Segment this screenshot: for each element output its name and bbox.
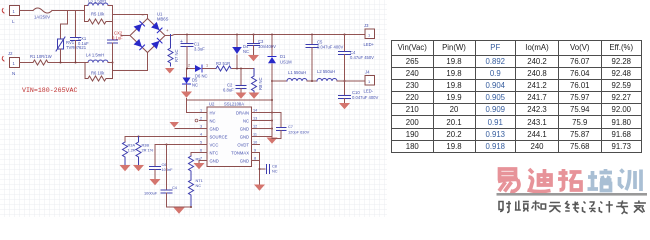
- J2 pigtail: [2, 57, 4, 62]
- inductor L4: [88, 60, 108, 63]
- svg-text:0.047uF 400V: 0.047uF 400V: [317, 45, 344, 50]
- watermark divider bar: [497, 193, 648, 196]
- svg-text:5: 5: [200, 141, 202, 145]
- wire L rail: [20, 10, 34, 12]
- svg-text:1: 1: [200, 109, 202, 113]
- bridge left stub: [121, 35, 130, 37]
- svg-text:L: L: [12, 19, 15, 24]
- svg-text:NC: NC: [272, 169, 278, 174]
- svg-text:12: 12: [253, 125, 257, 129]
- svg-text:D6 NC: D6 NC: [195, 74, 208, 79]
- svg-text:SOURCE: SOURCE: [210, 135, 228, 140]
- svg-text:J3: J3: [364, 23, 369, 28]
- capacitor C4b 1000uF: [166, 145, 168, 191]
- ground pin7: [198, 161, 201, 163]
- svg-text:2R 1%: 2R 1%: [142, 148, 154, 153]
- svg-text:2: 2: [200, 117, 202, 121]
- capacitor C8: [267, 165, 270, 174]
- bridge diodes: [134, 21, 163, 50]
- diode D4: [236, 35, 238, 48]
- ground C3: [248, 55, 259, 61]
- fuse F1: [33, 8, 52, 13]
- ground C6: [150, 179, 161, 185]
- resistor R2: [216, 66, 231, 71]
- capacitor CX1: [71, 38, 81, 41]
- U2 pin names: [210, 111, 250, 164]
- capacitor C10: [339, 96, 351, 99]
- svg-text:+: +: [166, 28, 169, 33]
- wire pin4 SOURCE: [125, 137, 200, 143]
- wire RV1 jog: [61, 11, 68, 39]
- wire pin9 TONMAX: [260, 153, 266, 170]
- svg-text:NTC: NTC: [210, 151, 219, 156]
- svg-text:VIN=180-265VAC: VIN=180-265VAC: [22, 87, 77, 94]
- svg-text:GND: GND: [210, 127, 219, 132]
- U2 pin numbers: [200, 109, 257, 161]
- svg-text:LED-: LED-: [364, 89, 374, 94]
- ground R7: [165, 68, 175, 74]
- svg-text:10n/400V: 10n/400V: [258, 44, 276, 49]
- svg-text:3: 3: [200, 125, 202, 129]
- capacitor C5: [311, 35, 313, 45]
- svg-text:10: 10: [253, 141, 257, 145]
- svg-text:NC: NC: [243, 119, 249, 124]
- J1 pigtail: [2, 9, 4, 14]
- svg-text:SSL2108A: SSL2108A: [224, 102, 244, 107]
- ground VCC bus: [174, 208, 185, 214]
- svg-text:0.1uF: 0.1uF: [78, 41, 89, 46]
- choke split left: [84, 6, 86, 22]
- results table: [391, 40, 642, 153]
- svg-text:NC: NC: [210, 119, 216, 124]
- svg-text:MB6S: MB6S: [157, 17, 169, 22]
- choke join right / X-cap drop: [112, 6, 114, 41]
- svg-text:LED+: LED+: [364, 42, 375, 47]
- svg-text:9: 9: [254, 149, 256, 153]
- watermark logo yi di tuo pei xun: [498, 169, 582, 192]
- capacitor C4: [344, 35, 346, 52]
- resistor R3A: [123, 142, 128, 165]
- svg-text:13: 13: [253, 117, 257, 121]
- DC+ rail: [165, 35, 365, 36]
- svg-text:US1M: US1M: [280, 60, 292, 65]
- ground pins 11-13: [267, 138, 278, 144]
- svg-text:0.047uF 400V: 0.047uF 400V: [352, 95, 379, 100]
- resistor R8: [252, 69, 257, 93]
- svg-text:R8 NC: R8 NC: [258, 77, 263, 90]
- wires pins 13 12 11 to gnd bus: [260, 121, 273, 137]
- svg-text:L3 1.5mH: L3 1.5mH: [88, 0, 106, 4]
- wire pin6 NTC: [191, 153, 200, 157]
- svg-text:TONMAX: TONMAX: [231, 151, 249, 156]
- wire pin14 DRAIN: [260, 112, 282, 114]
- U2 pin stubs left: [200, 113, 260, 161]
- svg-text:1A/250V: 1A/250V: [34, 15, 50, 20]
- svg-text:NC: NC: [243, 49, 249, 54]
- svg-text:4: 4: [200, 133, 202, 137]
- svg-text:120pF 630V: 120pF 630V: [288, 130, 310, 135]
- svg-text:R7 NC: R7 NC: [174, 49, 179, 62]
- pin2 NC circle: [195, 119, 198, 122]
- wire CX2 to AC2: [113, 43, 148, 71]
- svg-text:DRAIN: DRAIN: [236, 111, 249, 116]
- connector J1: [10, 6, 20, 16]
- resistor R9: [189, 156, 194, 180]
- svg-text:L4 1.5mH: L4 1.5mH: [86, 53, 104, 58]
- ground pin8: [254, 185, 265, 191]
- capacitor C1: [186, 35, 188, 44]
- svg-text:C7: C7: [288, 124, 293, 129]
- svg-text:14: 14: [253, 109, 257, 113]
- ground R3B: [133, 165, 144, 171]
- svg-text:GND: GND: [240, 159, 249, 164]
- resistor R3B: [136, 137, 141, 165]
- svg-text:VCC: VCC: [210, 143, 219, 148]
- svg-text:U2: U2: [209, 102, 215, 107]
- svg-text:N: N: [12, 71, 15, 76]
- HV bus wire: [187, 99, 273, 113]
- wire N rail: [20, 62, 34, 64]
- wire pin3: [175, 128, 200, 130]
- inductor L1: [272, 80, 287, 82]
- drain riser: [271, 64, 273, 138]
- thermistor NT1: [189, 180, 194, 207]
- svg-text:GND: GND: [210, 159, 219, 164]
- rail junction dots: [186, 34, 346, 36]
- svg-text:+: +: [180, 39, 183, 45]
- wire N to choke: [48, 62, 85, 64]
- svg-text:OVDT: OVDT: [237, 143, 249, 148]
- svg-text:0.1uF: 0.1uF: [112, 36, 123, 41]
- junction dots N rail: [60, 62, 114, 64]
- bridge rectifier U1: [130, 19, 165, 53]
- diode D5: [186, 69, 188, 78]
- wire fuse to choke: [52, 10, 85, 12]
- schematic grid background: [0, 0, 387, 217]
- svg-text:R2 51R: R2 51R: [216, 61, 230, 66]
- svg-text:3.3uF: 3.3uF: [194, 47, 205, 52]
- svg-text:R5 10k: R5 10k: [91, 12, 105, 17]
- wire CX1 to N: [75, 41, 77, 63]
- ground pin3: [170, 122, 180, 128]
- capacitor C2: [240, 69, 242, 86]
- resistor R6: [85, 63, 113, 82]
- wire CX1 drop: [75, 11, 77, 38]
- watermark slogan line: [499, 201, 646, 215]
- svg-text:J2: J2: [8, 51, 13, 56]
- op-amp U2 SSL2108A body: [207, 107, 252, 167]
- resistor R5: [85, 19, 113, 24]
- wire RV1 to N: [60, 49, 62, 63]
- ground R3A: [120, 165, 131, 171]
- svg-text:1: 1: [206, 64, 208, 68]
- wire pin8 GND: [259, 161, 261, 185]
- svg-text:L1 550uH: L1 550uH: [288, 70, 306, 75]
- diode D6: [187, 68, 195, 70]
- svg-text:R1 10R/1W: R1 10R/1W: [30, 54, 52, 59]
- resistor R1: [33, 60, 48, 65]
- svg-text:8: 8: [254, 157, 256, 161]
- svg-text:GND: GND: [240, 135, 249, 140]
- svg-text:R6 10k: R6 10k: [91, 71, 105, 76]
- diode D1: [271, 35, 273, 57]
- svg-text:D1: D1: [280, 54, 286, 59]
- svg-text:1.2R: 1.2R: [128, 148, 136, 153]
- capacitor C7: [280, 113, 282, 128]
- inductor L3: [85, 5, 89, 7]
- capacitor CX2: [108, 40, 118, 43]
- wire to bridge top: [113, 15, 148, 19]
- svg-text:6.8uF: 6.8uF: [223, 88, 234, 93]
- svg-text:L2 550uH: L2 550uH: [317, 69, 335, 74]
- varistor RV1: [56, 37, 65, 51]
- ground R8: [249, 93, 260, 99]
- svg-text:2: 2: [188, 64, 190, 68]
- capacitor C6: [150, 167, 161, 170]
- svg-text:HV: HV: [210, 111, 216, 116]
- svg-text:C4: C4: [172, 185, 178, 190]
- svg-text:J4: J4: [365, 70, 370, 75]
- svg-text:0.47uF 450V: 0.47uF 450V: [350, 55, 374, 60]
- capacitor C3: [253, 35, 255, 44]
- svg-text:100nF: 100nF: [162, 167, 174, 172]
- resistor R7: [168, 35, 173, 67]
- svg-text:11: 11: [253, 133, 257, 137]
- ground C10: [339, 103, 350, 109]
- svg-text:NC: NC: [192, 83, 198, 88]
- svg-text:GND: GND: [240, 127, 249, 132]
- svg-text:1000uF: 1000uF: [144, 191, 158, 196]
- ground D5: [181, 92, 192, 98]
- ground C2: [236, 93, 247, 99]
- svg-text:6: 6: [200, 149, 202, 153]
- svg-text:NC: NC: [196, 183, 202, 188]
- wire pin5 VCC: [155, 145, 200, 167]
